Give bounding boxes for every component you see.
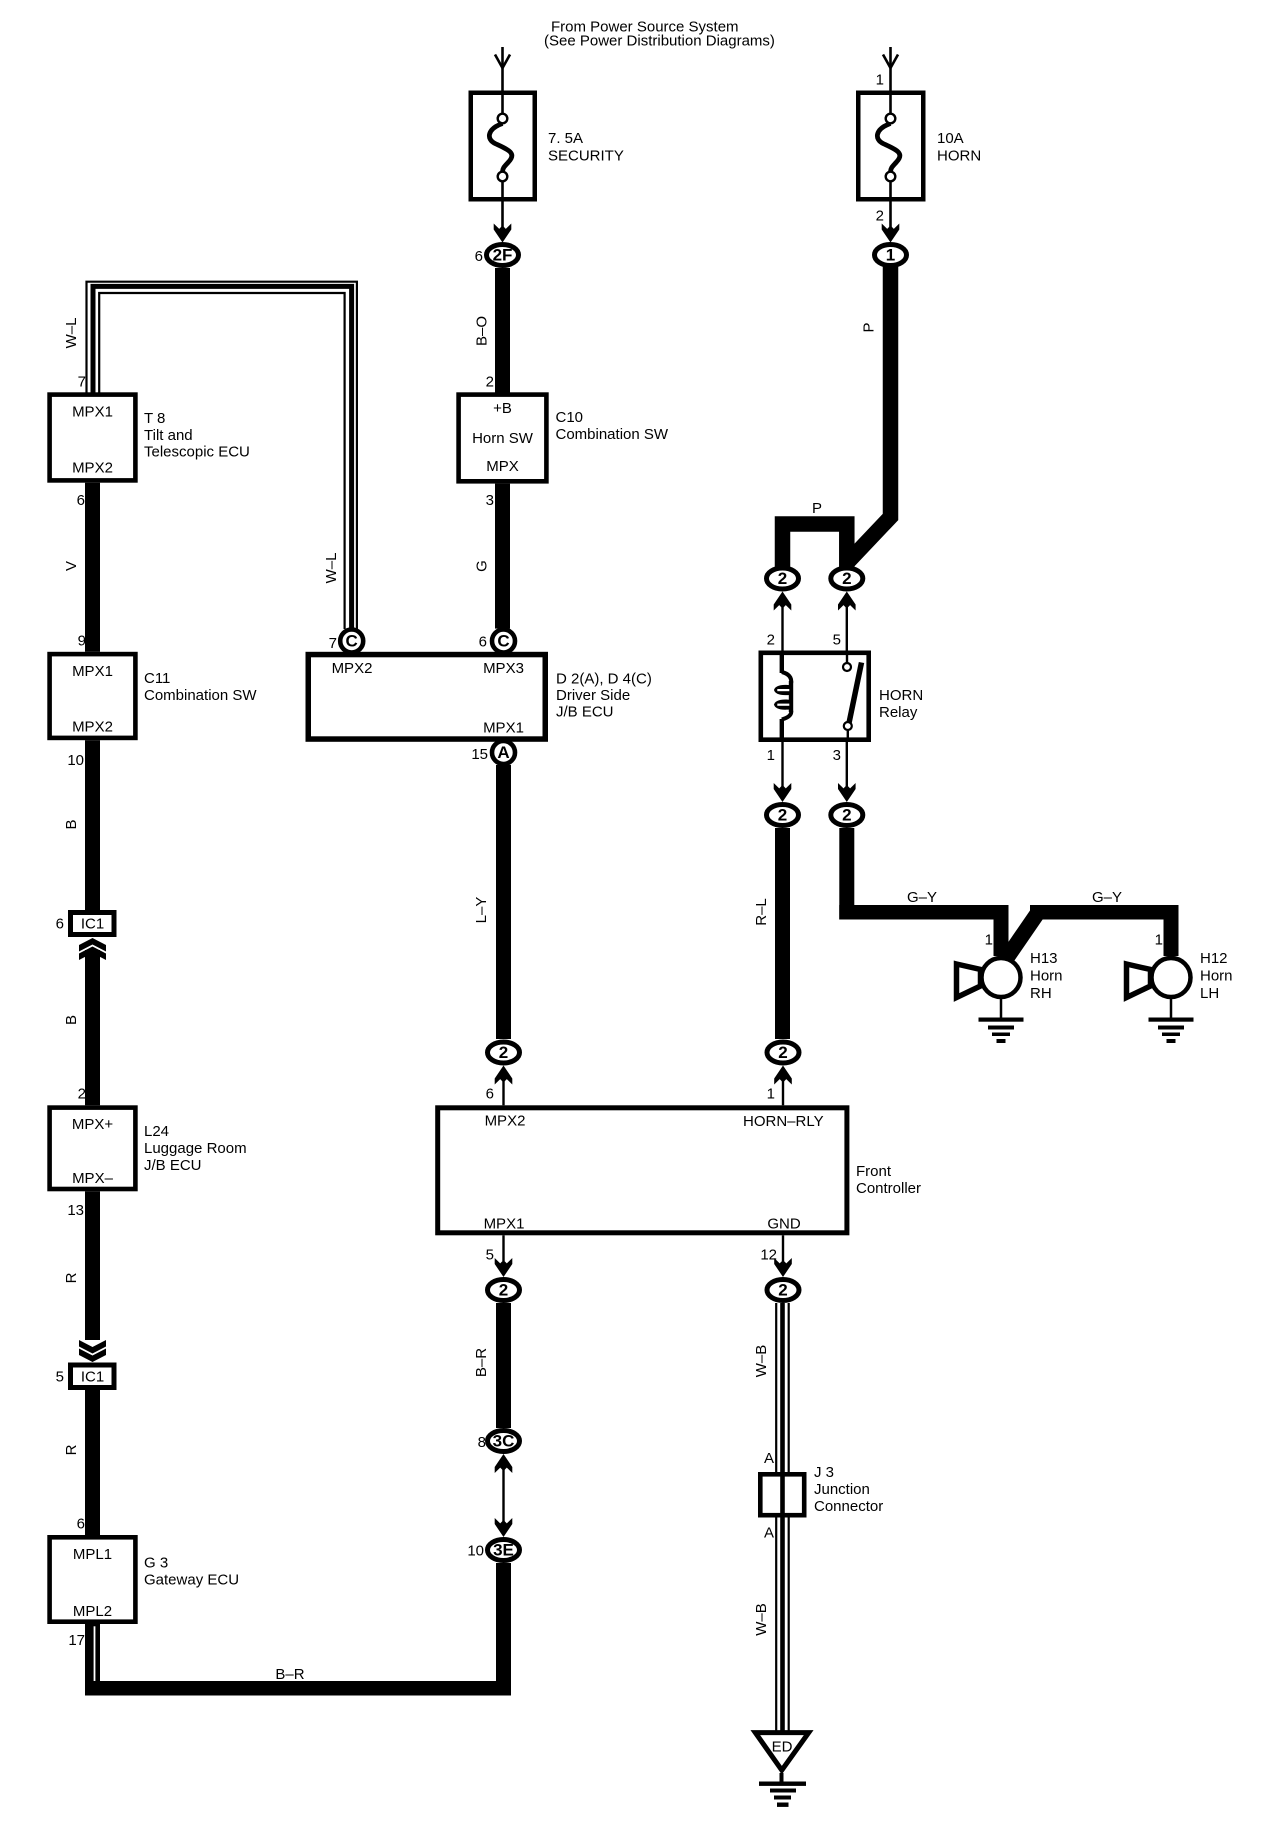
combination switch C10 Horn SW [459,395,669,482]
connector 3E pin 10 [467,1540,519,1561]
svg-text:A: A [764,1450,774,1467]
svg-text:3: 3 [833,747,841,764]
svg-text:MPX1: MPX1 [72,404,113,421]
svg-text:R–L: R–L [753,898,770,926]
svg-text:2: 2 [842,569,851,588]
svg-text:1: 1 [1155,932,1163,949]
svg-text:MPX3: MPX3 [483,660,524,677]
svg-text:6: 6 [486,1086,494,1103]
svg-text:G–Y: G–Y [1092,889,1122,906]
svg-text:MPX1: MPX1 [484,1216,525,1233]
svg-text:5: 5 [486,1247,494,1264]
svg-text:W–B: W–B [753,1345,770,1378]
svg-text:1: 1 [767,1086,775,1103]
svg-text:MPL1: MPL1 [73,1546,112,1563]
svg-text:5: 5 [56,1369,64,1386]
svg-text:3C: 3C [493,1432,515,1451]
svg-text:+B: +B [493,400,512,417]
svg-text:T 8: T 8 [144,410,165,427]
svg-text:2: 2 [767,632,775,649]
connector 2 above HORN-RLY [767,1042,799,1105]
wire: 3C to 3E with arrows [495,1454,513,1537]
wire G: Horn SW to J/B ECU pin 6 [474,484,511,629]
wire: feed into fuse SECURITY [495,47,510,91]
svg-text:6: 6 [475,248,483,265]
wire: feed into fuse HORN [876,47,898,91]
svg-text:2: 2 [486,374,494,391]
svg-text:C: C [497,632,509,651]
svg-text:MPX1: MPX1 [72,663,113,680]
svg-text:10A: 10A [937,130,964,147]
ground ED [755,1733,808,1807]
svg-text:2: 2 [78,1086,86,1103]
svg-text:GND: GND [767,1216,801,1233]
driver side J/B ECU [308,655,652,740]
wire: GND pin 12 to connector 2 [760,1235,791,1277]
svg-text:6: 6 [56,916,64,933]
svg-text:2: 2 [778,1043,787,1062]
svg-text:Controller: Controller [856,1180,921,1197]
fuse 7.5A SECURITY [471,91,624,202]
svg-text:8: 8 [478,1434,486,1451]
tilt and telescopic ECU T8 [50,395,250,481]
wire G-Y: relay to horns [839,828,1178,962]
svg-text:J/B ECU: J/B ECU [144,1157,202,1174]
svg-text:W–L: W–L [323,553,340,584]
svg-text:J 3: J 3 [814,1464,834,1481]
svg-text:2: 2 [778,569,787,588]
svg-text:2F: 2F [493,246,513,265]
connector A pin 15 [471,741,515,764]
connector 1 [875,245,907,266]
svg-text:B–R: B–R [275,1666,304,1683]
svg-text:B–R: B–R [473,1348,490,1377]
wire B-R: front controller pin 5 to 3C [473,1303,511,1428]
wire B: L24 to IC1 with arrows [63,938,106,1105]
wire P: connector 1 to horn relay [783,266,891,568]
svg-text:15: 15 [471,746,488,763]
junction IC1 pin 5 [56,1365,114,1388]
svg-text:RH: RH [1030,985,1052,1002]
svg-text:IC1: IC1 [81,916,104,933]
svg-text:3: 3 [486,492,494,509]
svg-text:W–B: W–B [753,1603,770,1636]
svg-text:J/B ECU: J/B ECU [556,704,614,721]
svg-text:MPX1: MPX1 [483,720,524,737]
svg-text:H12: H12 [1200,950,1228,967]
svg-text:G: G [474,560,491,572]
front controller [438,1108,921,1233]
svg-text:G–Y: G–Y [907,889,937,906]
connector 2 above MPX2 [486,1042,520,1105]
svg-text:2: 2 [778,806,787,825]
svg-text:R: R [63,1272,80,1283]
connector 2 below GND [767,1280,799,1301]
svg-text:1: 1 [985,932,993,949]
svg-text:1: 1 [767,747,775,764]
junction IC1 pin 6 [56,913,114,935]
svg-text:Combination SW: Combination SW [556,426,669,443]
svg-text:13: 13 [67,1202,84,1219]
wire R: L24 to IC1 pin 5 [63,1191,106,1362]
wire: fuse HORN to connector 1 [876,202,900,243]
svg-text:A: A [497,743,509,762]
header note: power source [544,19,775,50]
svg-text:Relay: Relay [879,704,918,721]
svg-text:Driver Side: Driver Side [556,687,630,704]
svg-text:3E: 3E [493,1541,514,1560]
svg-text:2: 2 [499,1043,508,1062]
svg-text:MPX2: MPX2 [72,460,113,477]
svg-text:MPX–: MPX– [72,1170,114,1187]
svg-text:10: 10 [467,1543,484,1560]
svg-text:Combination SW: Combination SW [144,687,257,704]
svg-text:7: 7 [329,635,337,652]
svg-text:H13: H13 [1030,950,1058,967]
wire V: T8 to C11 [63,483,100,652]
svg-text:IC1: IC1 [81,1369,104,1386]
svg-text:Connector: Connector [814,1498,883,1515]
svg-text:Horn SW: Horn SW [472,430,534,447]
wire B: C11 to IC1 [63,740,100,910]
connector 2 below MPX1 [486,1235,520,1300]
connector 2F pin 6 [475,245,519,266]
svg-text:9: 9 [78,633,86,650]
wire B-R: G3 pin 17 to connector 3E [85,1563,511,1696]
combination switch C11 [50,654,258,738]
svg-text:6: 6 [77,492,85,509]
svg-text:P: P [861,322,878,332]
horn relay [761,651,923,743]
wire W-L: T8 pin 7 to J/B ECU pin 7 (shielded) [63,282,357,629]
wire: fuse SECURITY to connector 2F [494,202,512,243]
gateway ECU G3 [50,1537,239,1649]
svg-text:HORN: HORN [937,148,981,165]
svg-text:Junction: Junction [814,1481,870,1498]
connector C pin 7 [329,630,364,653]
svg-text:10: 10 [67,752,84,769]
svg-text:HORN–RLY: HORN–RLY [743,1113,824,1130]
connector 2 above relay pin 5 [831,568,863,651]
svg-text:2: 2 [842,806,851,825]
svg-text:Telescopic ECU: Telescopic ECU [144,444,250,461]
svg-text:Tilt and: Tilt and [144,427,193,444]
svg-text:SECURITY: SECURITY [548,148,624,165]
svg-text:2: 2 [876,208,884,225]
wires relay pins 1,3 to connectors [767,742,856,802]
horn RH H13 [957,932,1063,1044]
svg-text:MPX: MPX [486,458,519,475]
svg-text:P: P [812,500,822,517]
connector 3C pin 8 [478,1431,520,1452]
svg-text:MPX2: MPX2 [485,1113,526,1130]
svg-text:(See Power Distribution Diagra: (See Power Distribution Diagrams) [544,33,775,50]
svg-text:C11: C11 [144,670,170,687]
wire W-B: shielded ground wire [753,1303,789,1731]
svg-text:Gateway ECU: Gateway ECU [144,1572,239,1589]
svg-text:L–Y: L–Y [473,897,490,924]
svg-text:ED: ED [772,1739,793,1756]
svg-text:A: A [764,1525,774,1542]
svg-text:B: B [63,1015,80,1025]
svg-text:1: 1 [886,246,895,265]
svg-text:17: 17 [68,1632,85,1649]
svg-text:G 3: G 3 [144,1555,168,1572]
svg-text:W–L: W–L [63,318,80,349]
svg-text:C10: C10 [556,409,584,426]
svg-text:D 2(A), D 4(C): D 2(A), D 4(C) [556,671,652,688]
svg-text:7: 7 [78,374,86,391]
svg-text:B: B [63,819,80,829]
connector 2 above relay pin 2 [767,568,799,651]
svg-text:6: 6 [77,1516,85,1533]
svg-text:MPX+: MPX+ [72,1116,114,1133]
svg-text:Luggage Room: Luggage Room [144,1140,247,1157]
svg-text:6: 6 [479,634,487,651]
connector C pin 6 [479,630,515,653]
svg-text:V: V [63,561,80,571]
svg-text:2: 2 [778,1281,787,1300]
wire L-Y: J/B ECU pin 15 to front controller pin 6 [473,765,511,1039]
svg-text:Horn: Horn [1030,968,1063,985]
svg-text:1: 1 [876,72,884,89]
svg-text:MPX2: MPX2 [332,660,373,677]
svg-text:B–O: B–O [474,316,491,346]
svg-text:C: C [346,632,358,651]
wire R: IC1 to G3 [63,1390,100,1535]
fuse 10A HORN [858,91,981,202]
connector 2 below relay pin 1 [767,805,799,826]
svg-text:5: 5 [833,632,841,649]
wire B-O: 2F to Horn SW [474,268,511,393]
junction connector J3 [760,1303,883,1731]
svg-text:7. 5A: 7. 5A [548,130,583,147]
svg-text:Front: Front [856,1163,892,1180]
svg-text:MPL2: MPL2 [73,1603,112,1620]
svg-text:HORN: HORN [879,687,923,704]
svg-text:2: 2 [499,1281,508,1300]
horn LH H12 [1127,932,1233,1044]
luggage room J/B ECU L24 [50,1108,247,1189]
svg-text:Horn: Horn [1200,968,1233,985]
svg-text:R: R [63,1444,80,1455]
svg-text:LH: LH [1200,985,1219,1002]
svg-text:MPX2: MPX2 [72,719,113,736]
svg-text:L24: L24 [144,1123,169,1140]
connector 2 below relay pin 3 [831,805,863,826]
wire R-L: relay to front controller HORN-RLY [753,828,790,1039]
